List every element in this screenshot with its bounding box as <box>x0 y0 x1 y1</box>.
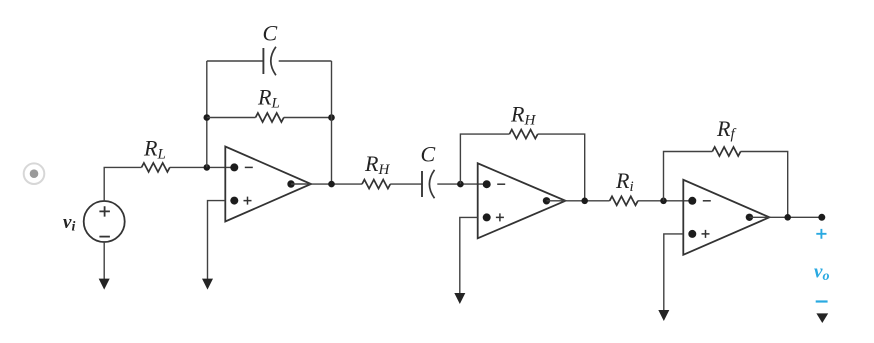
wire R_L feedback row <box>207 117 332 119</box>
U2 output pin <box>543 197 550 204</box>
op-amp U2 <box>478 163 566 238</box>
U3 inverting input pin <box>688 197 696 205</box>
wire U3 + input to ground <box>664 234 684 311</box>
capacitor C (series) <box>422 170 435 198</box>
output ground marker <box>816 313 828 323</box>
node (input junction) <box>204 164 211 171</box>
wire source top to input row <box>104 167 141 201</box>
U1 plus sign <box>244 197 252 205</box>
wire U3 feedback loop <box>664 152 788 218</box>
wire R_i to U3 <box>638 200 692 202</box>
wire U2 + input to ground <box>460 217 478 294</box>
ground arrow (U1) <box>202 279 213 290</box>
wire C to U2 <box>437 183 486 185</box>
U1 output pin <box>287 180 294 187</box>
wire U2 feedback loop <box>460 134 584 201</box>
wire source bottom <box>103 242 105 280</box>
resistor R_i <box>610 196 638 205</box>
resistor R_H (feedback U2) <box>509 130 537 139</box>
bullet marker <box>24 163 45 184</box>
ground arrow (source) <box>99 279 110 290</box>
U3 non-inverting input pin <box>688 230 696 238</box>
svg-text:C: C <box>421 142 436 167</box>
U2 non-inverting input pin <box>483 213 491 221</box>
U1 inverting input pin <box>230 163 238 171</box>
node (R_L row left) <box>204 114 211 121</box>
U3 output pin <box>746 214 753 221</box>
capacitor C (feedback) <box>263 47 276 75</box>
wire feedback right leg <box>331 61 333 184</box>
node (U3 output junction) <box>784 214 791 221</box>
U3 minus sign <box>703 200 711 202</box>
node (R_L row right) <box>328 114 335 121</box>
voltage source v_i <box>84 201 125 242</box>
resistor R_L (input) <box>142 163 170 172</box>
U1 minus sign <box>245 166 253 168</box>
wire R_H to C <box>390 183 422 185</box>
U1 non-inverting input pin <box>230 197 238 205</box>
output plus sign <box>816 229 826 239</box>
node (U2 output junction) <box>581 198 588 205</box>
wire U3 output to terminal <box>769 216 821 218</box>
ground arrow (U3) <box>658 310 669 321</box>
wire feedback left leg <box>206 61 208 167</box>
node (U1 output junction) <box>328 181 335 188</box>
resistor R_L (feedback) <box>256 113 284 122</box>
op-amp U1 <box>225 147 311 222</box>
wire U1 + input to ground <box>208 201 226 280</box>
wire R_L to op-amp <box>170 166 235 168</box>
U2 plus sign <box>496 213 504 221</box>
U3 plus sign <box>702 230 710 238</box>
resistor R_H (series) <box>362 180 390 189</box>
op-amp U3 <box>683 180 769 255</box>
ground arrow (U2) <box>454 293 465 304</box>
resistor R_f <box>712 147 740 156</box>
wire U2 output row <box>566 200 610 202</box>
node (U3 input junction) <box>660 198 667 205</box>
svg-text:C: C <box>263 21 278 46</box>
node (U2 input junction) <box>457 181 464 188</box>
U2 inverting input pin <box>483 180 491 188</box>
output minus sign <box>816 300 828 302</box>
wire capacitor top row <box>207 60 332 62</box>
wire U1 output row <box>311 183 362 185</box>
U2 minus sign <box>497 183 505 185</box>
terminal node v_o <box>818 214 825 221</box>
